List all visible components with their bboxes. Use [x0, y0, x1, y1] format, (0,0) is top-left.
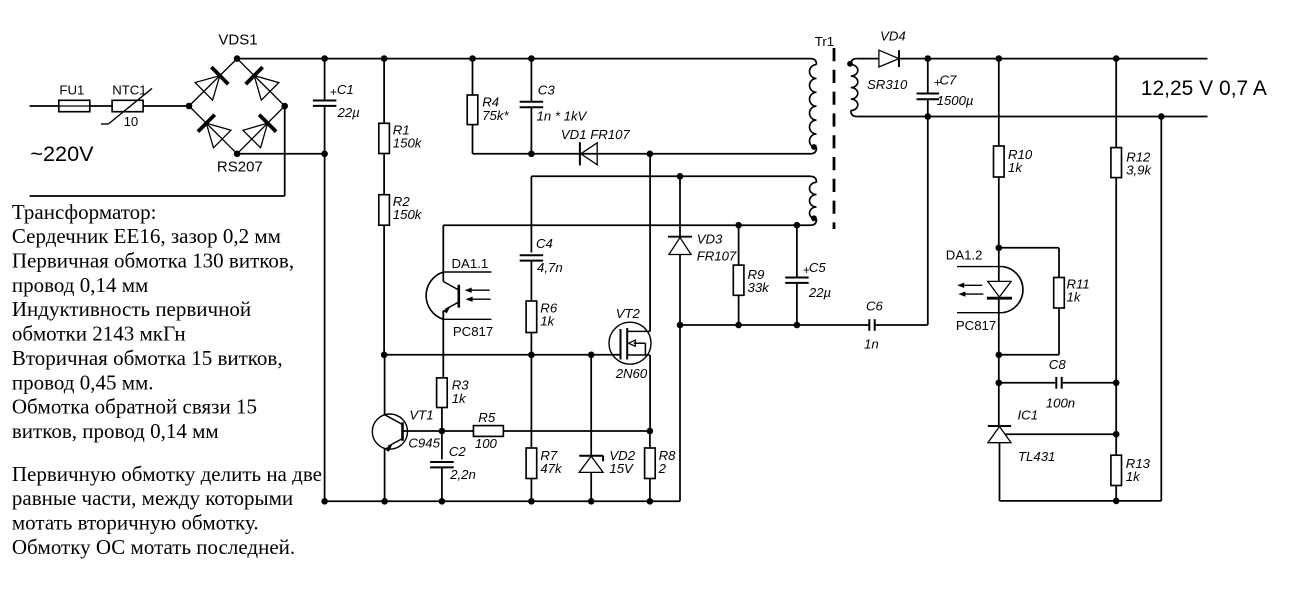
resistor R10 1k: [998, 59, 1000, 146]
resistor R7 47k: [530, 355, 532, 448]
wire - feedback ground rail: [680, 324, 868, 326]
wire - C8 to TL431 cathode: [998, 383, 1000, 426]
wire - secondary lower rail: [1000, 500, 1162, 502]
wire - DA1.1 emitter to R3: [442, 311, 444, 378]
svg-text:TL431: TL431: [1018, 449, 1055, 464]
capacitor C5 22u electrolytic: [796, 225, 798, 277]
wire - bridge right vertex down: [284, 106, 286, 196]
transistor VT1 C945 NPN: [372, 414, 407, 449]
node - C8 right junction: [1113, 380, 1120, 387]
svg-text:Обмотку ОС мотать последней.: Обмотку ОС мотать последней.: [12, 535, 295, 559]
transformer Tr1 secondary winding: [851, 65, 858, 111]
thermistor NTC1: [112, 100, 143, 111]
svg-text:равные части, между которыми: равные части, между которыми: [12, 486, 293, 510]
wire - rectified HV rail (bridge to transformer primary): [237, 58, 810, 60]
node - R10 top: [996, 55, 1003, 62]
node - C5 top junction: [794, 222, 801, 229]
svg-text:4,7n: 4,7n: [537, 260, 563, 275]
wire - secondary ground lead: [857, 116, 1208, 118]
svg-text:C3: C3: [538, 83, 556, 98]
wire - C1 down to primary ground rail: [324, 154, 326, 502]
node - bridge vertices: [234, 55, 241, 62]
wire - R4 bottom lead: [472, 125, 474, 154]
svg-text:SR310: SR310: [867, 77, 908, 92]
svg-text:провод 0,14 мм: провод 0,14 мм: [12, 273, 148, 297]
svg-text:NTC1: NTC1: [112, 82, 146, 97]
svg-text:22µ: 22µ: [337, 105, 361, 120]
node - VD3 top junction: [677, 173, 684, 180]
node - C8 left junction: [996, 380, 1003, 387]
svg-text:C7: C7: [940, 73, 958, 88]
wire - NTC1 to bridge left vertex: [143, 105, 189, 107]
svg-text:C5: C5: [809, 260, 827, 275]
resistor R11 1k: [1058, 248, 1060, 278]
node - VD1 to VT2 drain junction: [647, 151, 654, 158]
node - R9 bottom: [735, 322, 742, 329]
node - R12 top: [1113, 55, 1120, 62]
svg-text:3,9k: 3,9k: [1126, 162, 1152, 177]
capacitor C2 2,2n: [441, 431, 443, 459]
node - R4 top: [469, 55, 476, 62]
resistor R6 1k: [526, 301, 537, 333]
bridge rectifier - diode bottom-left: [189, 106, 237, 154]
svg-text:мотать вторичную обмотку.: мотать вторичную обмотку.: [12, 511, 259, 535]
svg-text:Трансформатор:: Трансформатор:: [12, 200, 157, 224]
svg-text:Обмотка обратной связи 15: Обмотка обратной связи 15: [12, 395, 257, 419]
svg-text:150k: 150k: [393, 207, 423, 222]
optocoupler DA1.1 PC817 phototransistor: [426, 272, 443, 319]
svg-text:Первичная обмотка 130 витков,: Первичная обмотка 130 витков,: [12, 249, 294, 273]
svg-text:R5: R5: [478, 410, 496, 425]
wire - R3 bottom to VT1 base junction: [441, 408, 443, 432]
resistor R9 33k: [738, 225, 740, 265]
resistor R5 100 (horizontal): [473, 426, 503, 437]
capacitor C4 4,7n: [520, 254, 544, 256]
node - output minus junction: [1158, 113, 1165, 120]
svg-text:Вторичная обмотка 15 витков,: Вторичная обмотка 15 витков,: [12, 346, 283, 370]
light arrows out of DA1.2: [961, 284, 982, 286]
svg-text:RS207: RS207: [217, 159, 263, 176]
wire - bridge minus to C1: [237, 153, 325, 155]
svg-text:150k: 150k: [393, 136, 423, 151]
diode VD3 FR107: [679, 176, 681, 236]
wire - feedback top down to C4: [530, 176, 532, 252]
svg-text:33k: 33k: [748, 280, 771, 295]
svg-text:Tr1: Tr1: [815, 34, 834, 49]
svg-text:Индуктивность первичной: Индуктивность первичной: [12, 297, 251, 321]
transistor VT2 2N60 MOSFET: [609, 322, 651, 364]
svg-text:15V: 15V: [609, 461, 634, 476]
transformer Tr1 feedback winding: [810, 182, 817, 219]
wire - down to C8 junction: [998, 355, 1000, 383]
svg-text:C8: C8: [1049, 357, 1067, 372]
transformer Tr1 primary winding: [810, 65, 817, 148]
transformer phase dot - secondary: [847, 61, 853, 67]
node - R10 bottom / R11 junction: [996, 245, 1003, 252]
node - VT1 base junction: [439, 428, 446, 435]
svg-text:VT1: VT1: [409, 407, 433, 422]
node - C5 bottom: [794, 322, 801, 329]
node - R1 top: [381, 55, 388, 62]
svg-text:PC817: PC817: [453, 324, 493, 339]
node - VD3 bottom junction: [677, 322, 684, 329]
capacitor C6 1n (primary-secondary bridge): [868, 319, 870, 331]
resistor R2 150k: [383, 154, 385, 195]
svg-text:10: 10: [124, 114, 139, 129]
svg-text:1k: 1k: [1067, 289, 1082, 304]
wire - C3 junction to VD1 anode... cathode side: [531, 153, 580, 155]
svg-text:100n: 100n: [1046, 395, 1075, 410]
node - R13 bottom: [1113, 498, 1120, 505]
node - VD2 junction: [588, 352, 595, 359]
svg-text:100: 100: [475, 436, 498, 451]
svg-text:обмотки 2143 мкГн: обмотки 2143 мкГн: [12, 322, 186, 346]
svg-text:+: +: [330, 85, 337, 99]
transformer phase dot - primary: [811, 144, 817, 150]
resistor R12 3,9k: [1115, 59, 1117, 148]
svg-text:VDS1: VDS1: [218, 32, 257, 49]
svg-text:FU1: FU1: [59, 82, 84, 97]
node - VD4 cathode / C7 junction: [925, 55, 932, 62]
wire - junction to R11: [999, 247, 1059, 249]
svg-text:1n: 1n: [864, 336, 879, 351]
svg-text:1k: 1k: [1008, 160, 1023, 175]
svg-text:12,25 V 0,7 A: 12,25 V 0,7 A: [1141, 77, 1267, 100]
capacitor C8 100n: [999, 382, 1055, 384]
svg-text:VT2: VT2: [616, 306, 641, 321]
wire - R5 to VT2 source junction: [503, 430, 650, 432]
wire - VT2 gate drive line: [384, 354, 620, 356]
wire - feedback bottom lead corner down to DA1.1 collector: [442, 225, 444, 281]
svg-text:провод 0,45 мм.: провод 0,45 мм.: [12, 370, 154, 394]
node - R6/R7 junction: [528, 352, 535, 359]
svg-text:2,2n: 2,2n: [449, 467, 476, 482]
capacitor C3 1n 1kV: [530, 59, 532, 102]
zener diode VD2 15V: [590, 355, 592, 456]
svg-text:C6: C6: [866, 298, 884, 313]
svg-text:VD4: VD4: [880, 29, 906, 44]
svg-text:2: 2: [658, 461, 667, 476]
bridge rectifier - diode top-right: [237, 59, 285, 106]
svg-text:~220V: ~220V: [30, 141, 94, 166]
svg-text:22µ: 22µ: [808, 285, 832, 300]
wire - C4 to R6: [530, 261, 532, 301]
optocoupler DA1.2 PC817 LED: [998, 248, 1000, 282]
fuse FU1: [59, 100, 90, 111]
node - R2/VT1 collector junction: [381, 352, 388, 359]
bridge rectifier VDS1 RS207 - diode top-left: [189, 59, 237, 106]
svg-text:VD3: VD3: [697, 232, 723, 247]
wire - feedback ground riser to primary ground rail: [679, 325, 681, 501]
wire - R6 bottom to gate line: [530, 333, 532, 355]
svg-text:47k: 47k: [540, 461, 563, 476]
transformer Tr1 core (dashed): [833, 48, 836, 229]
wire - FU1 to NTC1: [90, 105, 112, 107]
svg-text:2N60: 2N60: [615, 366, 648, 381]
svg-text:VD1 FR107: VD1 FR107: [561, 127, 631, 142]
svg-text:1k: 1k: [540, 314, 555, 329]
light arrows into DA1.1: [469, 289, 490, 291]
svg-text:1k: 1k: [1126, 469, 1141, 484]
svg-text:DA1.2: DA1.2: [946, 248, 983, 263]
wire - riser to output minus: [1160, 117, 1162, 501]
svg-text:FR107: FR107: [697, 249, 737, 264]
node - C3 bottom junction: [528, 151, 535, 158]
svg-text:Первичную обмотку делить на дв: Первичную обмотку делить на две: [12, 462, 322, 486]
node - reference junction: [1113, 431, 1120, 438]
svg-text:C4: C4: [536, 236, 553, 251]
diode VD1 FR107 (points left, cathode bar left): [579, 142, 581, 165]
wire - feedback winding bottom lead: [443, 224, 810, 226]
svg-text:C1: C1: [337, 82, 354, 97]
node - ground junctions: [321, 498, 328, 505]
svg-text:IC1: IC1: [1018, 408, 1039, 423]
capacitor C1 22u: [324, 59, 326, 101]
resistor R8 2: [649, 431, 651, 448]
svg-text:1k: 1k: [452, 391, 467, 406]
svg-text:75k*: 75k*: [482, 108, 509, 123]
node - C7 bottom: [925, 113, 932, 120]
capacitor C7 1500u electrolytic: [927, 59, 929, 94]
svg-text:Сердечник ЕЕ16, зазор 0,2 мм: Сердечник ЕЕ16, зазор 0,2 мм: [12, 224, 281, 248]
node - R5/VT2 source junction: [647, 428, 654, 435]
svg-text:DA1.1: DA1.1: [452, 256, 489, 271]
resistor R13 1k: [1111, 455, 1122, 485]
svg-text:C945: C945: [408, 436, 440, 451]
wire - secondary winding top lead: [857, 58, 879, 60]
wire - divider to R13: [1115, 383, 1117, 455]
resistor R4 75k*: [472, 59, 474, 95]
diode VD4 SR310: [879, 50, 899, 67]
node - C1 top: [321, 55, 328, 62]
wire - C6 to secondary ground: [875, 324, 928, 326]
node - LED cathode / R11 bottom junction: [996, 352, 1003, 359]
svg-text:PC817: PC817: [956, 318, 996, 333]
wire - feedback winding top lead: [531, 175, 810, 177]
svg-text:1n * 1kV: 1n * 1kV: [537, 108, 588, 123]
svg-text:1500µ: 1500µ: [937, 93, 974, 108]
resistor R3 1k: [437, 378, 448, 408]
node - C3 top: [528, 55, 535, 62]
svg-text:C2: C2: [449, 444, 467, 459]
node - R9 top junction: [735, 222, 742, 229]
shunt regulator IC1 TL431: [988, 425, 1011, 427]
wire - primary ground rail: [325, 500, 680, 502]
wire - TL431 reference to divider: [1005, 433, 1116, 435]
bridge rectifier - diode bottom-right: [237, 106, 285, 154]
wire - AC input top lead: [30, 105, 59, 107]
wire - R2 bottom to gate line: [383, 225, 385, 355]
svg-text:витков, провод 0,14 мм: витков, провод 0,14 мм: [12, 419, 219, 443]
resistor R1 150k: [383, 59, 385, 124]
wire - AC input bottom lead: [30, 195, 285, 197]
wire - to transformer primary bottom: [650, 153, 811, 155]
node - C1 bottom junction: [321, 151, 328, 158]
wire - base junction to R5: [442, 430, 474, 432]
transformer phase dot - feedback winding: [811, 215, 817, 221]
